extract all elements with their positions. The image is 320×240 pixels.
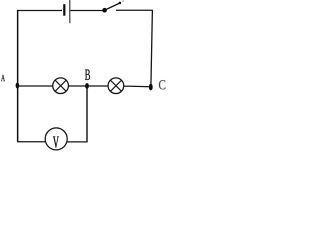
node B label (85, 70, 90, 80)
switch S1 blade tip dot (119, 2, 122, 5)
wire bottom left (corner to voltmeter) (17, 141, 45, 143)
node C label (159, 80, 165, 89)
wire node A to lamp L1 (17, 85, 53, 87)
wire battery to switch (70, 9, 103, 11)
battery B1 negative plate (short thick) (63, 4, 65, 16)
switch S1 left contact dot (102, 8, 107, 13)
lamp L1 circle (53, 78, 69, 94)
node A junction dot (16, 83, 20, 89)
wire left vertical (corner down to bottom corner) (17, 10, 19, 142)
voltmeter V1 circle (45, 128, 67, 150)
switch S1 blade (open) (105, 3, 120, 10)
switch S1 faint tip tick (122, 0, 124, 2)
wire switch to top right corner (116, 9, 153, 11)
wire bottom right (corner to voltmeter) (67, 141, 88, 143)
wire top left (corner to battery) (18, 9, 62, 11)
lamp L2 X cross (110, 80, 121, 91)
wire lamp L1 to node B (68, 85, 108, 87)
lamp L1 X cross (55, 80, 66, 91)
battery B1 positive plate (long thin) (69, 0, 71, 23)
wire node B down to voltmeter branch (86, 86, 88, 142)
node B junction dot (85, 83, 89, 89)
lamp L2 circle (108, 78, 124, 94)
voltmeter V1 label (53, 137, 59, 148)
wire right vertical (corner down to node C) (151, 10, 153, 87)
node A label (1, 75, 5, 81)
node C junction dot (149, 84, 153, 91)
wire lamp L2 to node C (124, 85, 151, 88)
